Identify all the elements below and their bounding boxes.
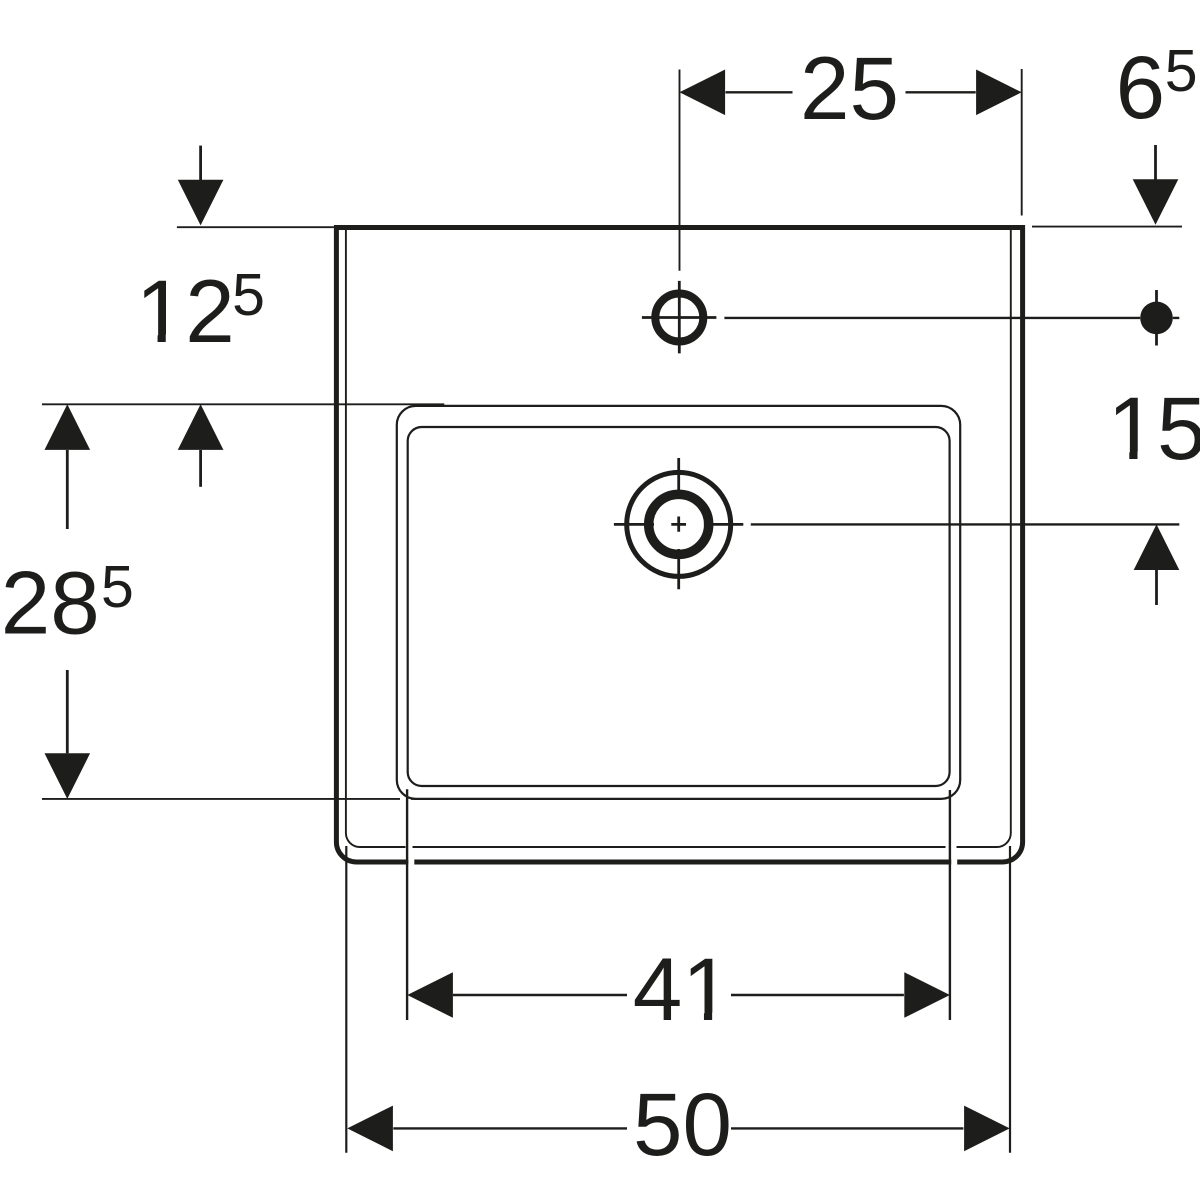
dimension 25 right arrow <box>976 70 1022 116</box>
extension line y227 left (top edge reference left) <box>177 226 334 228</box>
extension line y799 (28.5 lower reference) <box>42 798 444 800</box>
dimension 50 left arrow <box>347 1106 393 1152</box>
dimension 15 up arrow <box>1155 570 1158 605</box>
reference dot center mark <box>1155 290 1158 346</box>
extension line y404 (12.5 / 28.5 upper reference) <box>42 403 444 405</box>
dimension 28.5 up arrow <box>66 450 69 529</box>
dimension 12.5 down arrow <box>199 146 202 182</box>
dimension 41 right arrow <box>904 972 950 1018</box>
dimension 25 left arrow <box>680 70 726 116</box>
svg-text:5: 5 <box>101 554 134 620</box>
faucet hole center mark <box>642 281 717 354</box>
extension line x1010 (50 right) <box>1009 846 1011 1153</box>
inner basin opening <box>397 406 960 799</box>
masks to remove foot serif of digit 1 (Helvetica style) <box>142 335 1153 1023</box>
dimension 25 line <box>726 91 976 93</box>
dimension 6.5 arrow (down onto top-edge extension) <box>1154 145 1157 181</box>
extension line x346 (50 left) <box>345 846 347 1153</box>
svg-text:15: 15 <box>1108 378 1200 478</box>
svg-text:41: 41 <box>633 939 732 1039</box>
drain center mark <box>677 458 680 589</box>
svg-text:50: 50 <box>633 1074 732 1174</box>
white notch in bottom edge right of right 41-extension <box>946 844 958 871</box>
svg-text:25: 25 <box>800 38 899 138</box>
svg-text:6: 6 <box>1116 37 1166 137</box>
drain line to right edge <box>751 523 1180 525</box>
dimension 41 left arrow <box>407 972 453 1018</box>
white notch in bottom edge right of left 41-extension <box>406 844 415 871</box>
extension line x407 (41 left) <box>406 789 408 1020</box>
drain inner ring <box>649 494 709 554</box>
extension line x1022 (25 right) <box>1021 69 1023 216</box>
svg-text:5: 5 <box>232 262 265 328</box>
svg-text:28: 28 <box>1 553 100 653</box>
drain outer circle <box>627 472 731 576</box>
dimension 41 line <box>453 994 904 996</box>
basin floor outline <box>408 427 950 786</box>
dimension 28.5 down arrow <box>66 670 69 753</box>
dimension 12.5 up arrow <box>199 450 202 487</box>
extension line x679 (25 left, down to faucet hole) <box>679 70 681 271</box>
dimension 50 right arrow <box>964 1106 1010 1152</box>
faucet hole <box>655 294 703 342</box>
dimension 50 line <box>393 1127 963 1129</box>
extension line y226 right (6.5 reference) <box>1032 226 1182 228</box>
extension line x950 (41 right) <box>949 790 951 1020</box>
basin rim inner line <box>346 229 1011 847</box>
faucet line to right edge <box>724 317 1179 319</box>
outer basin outline <box>336 228 1022 863</box>
reference dot on right <box>1140 302 1173 335</box>
svg-text:12: 12 <box>136 261 235 361</box>
svg-text:5: 5 <box>1165 38 1198 104</box>
